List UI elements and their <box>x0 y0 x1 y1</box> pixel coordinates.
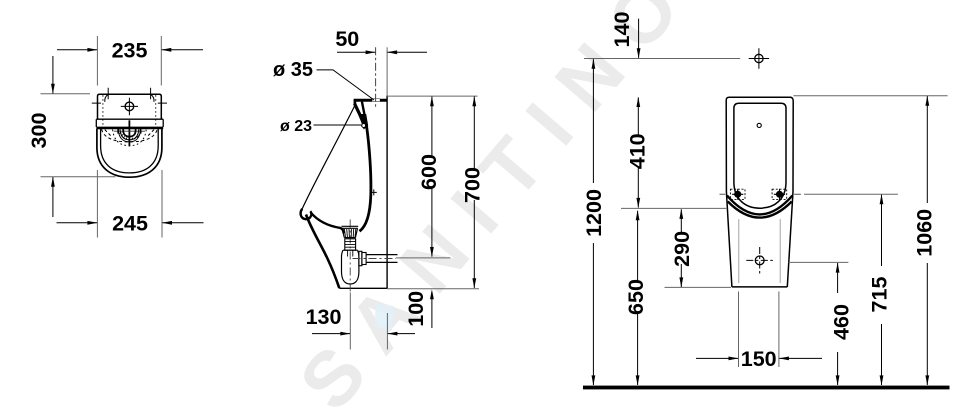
plate crosshair lines <box>121 98 138 115</box>
rim outer arc <box>727 196 792 215</box>
svg-text:245: 245 <box>112 212 148 236</box>
inlet spigot top thick bar <box>354 99 388 102</box>
dim 100 arrow and shaft <box>431 292 433 328</box>
hidden slot dashed line left <box>102 95 104 126</box>
trap dip tube <box>348 250 353 256</box>
dim 235 line right <box>162 49 203 51</box>
dim 150 extension lines <box>739 292 779 368</box>
trap flange <box>342 226 359 237</box>
hidden corner diagonal right <box>147 130 154 138</box>
dim 715 shaft <box>881 195 883 385</box>
trap flange hatch <box>344 229 355 237</box>
svg-text:460: 460 <box>829 304 853 340</box>
rim inner slope to drain <box>311 213 344 234</box>
top level extension line right <box>793 95 947 97</box>
corner relief hook left <box>105 95 108 102</box>
outlet crosshair <box>755 256 764 265</box>
bottom line <box>339 287 387 289</box>
leader ø23 <box>314 124 362 126</box>
rim band bottom thick line <box>96 127 163 130</box>
plate side centerline ticks <box>92 102 167 104</box>
dim 245 line right <box>162 222 203 224</box>
bowl outer edge (plan) <box>97 129 162 177</box>
svg-text:ø 23: ø 23 <box>280 118 312 135</box>
spigot left end <box>354 101 357 105</box>
small hole in back wall <box>757 123 761 127</box>
dim 1200 shaft <box>592 59 594 385</box>
dim 600 shaft <box>431 97 433 257</box>
wall line <box>386 96 388 289</box>
body outer edge left <box>726 97 793 287</box>
dim 300 line top <box>52 56 54 93</box>
svg-text:50: 50 <box>335 27 359 51</box>
dim 50 right extension <box>386 47 388 95</box>
svg-text:300: 300 <box>27 113 51 149</box>
drain recess hatch <box>120 132 141 140</box>
drain recess side ticks <box>118 129 140 134</box>
svg-text:715: 715 <box>868 277 892 313</box>
neck lower fill <box>360 114 368 130</box>
mounting plate outline (plan view) <box>98 94 162 119</box>
hole ø23 on slope <box>362 124 366 128</box>
mounting height line <box>584 58 740 60</box>
top mounting crosshair <box>755 54 763 62</box>
outer bottom shell <box>306 215 339 289</box>
fixing marker left <box>730 189 745 200</box>
trap locknut <box>345 239 356 250</box>
svg-text:290: 290 <box>670 231 694 267</box>
watermark blue accent <box>374 304 394 330</box>
front silhouette thin line <box>302 103 356 209</box>
rim level extension line <box>621 207 726 209</box>
svg-text:410: 410 <box>625 133 649 169</box>
top surface extension line <box>387 95 477 97</box>
lower body bottom <box>732 286 787 288</box>
bowl inner edge (plan) <box>101 129 159 173</box>
inlet hole centerline / dim 50 left extension <box>375 47 377 107</box>
inner bowl opening <box>734 103 786 208</box>
dim 130 line left <box>312 333 350 335</box>
rim band (plan view) <box>96 119 163 127</box>
pipe centerline extension <box>396 257 450 259</box>
svg-text:100: 100 <box>404 291 428 327</box>
inlet hole thin segments <box>372 99 380 102</box>
outlet pipe <box>366 255 397 263</box>
plate crosshair circle <box>125 102 134 111</box>
fixing height side ticks <box>720 193 801 195</box>
drain horizontal centerline <box>114 130 145 132</box>
svg-text:700: 700 <box>461 167 485 203</box>
drain semicircle <box>123 129 135 137</box>
svg-text:140: 140 <box>610 12 634 48</box>
dim 460 shaft <box>837 263 839 385</box>
hidden corner diagonal left <box>105 130 112 138</box>
bottom extension line right <box>387 288 479 290</box>
corner relief hook right <box>151 95 154 102</box>
dim 235 extension lines <box>97 36 161 86</box>
hidden channel lines <box>739 219 780 283</box>
fixing point cross <box>371 189 377 195</box>
pipe centerline dash-dot <box>353 258 397 260</box>
svg-text:130: 130 <box>306 305 342 329</box>
dim 150 line right <box>779 357 822 359</box>
outlet level extension line right <box>789 261 849 263</box>
outlet flange rings <box>359 251 362 265</box>
fixing level extension line right <box>804 193 898 195</box>
fixing marker right <box>772 189 787 200</box>
dim 650 shaft <box>637 211 639 385</box>
svg-text:150: 150 <box>741 347 777 371</box>
bottom level extension line <box>665 286 732 288</box>
floor line <box>583 386 950 390</box>
leader ø35 <box>317 70 375 100</box>
dim 130 extension lines <box>350 293 387 350</box>
svg-text:600: 600 <box>417 154 441 190</box>
dim 1060 shaft <box>926 96 928 385</box>
trap bottle <box>342 250 359 284</box>
dim 50 line right <box>388 51 428 53</box>
hidden slot dashed line right <box>155 95 157 126</box>
plate centerline ticks top <box>108 88 150 100</box>
svg-text:ø 35: ø 35 <box>273 59 313 81</box>
dim 245 extension lines <box>97 170 162 238</box>
svg-text:SANITINO: SANITINO <box>282 0 710 410</box>
hidden rim inner edge dashed arc <box>102 129 158 142</box>
dim 290 shaft <box>680 209 682 287</box>
svg-text:235: 235 <box>112 39 148 63</box>
dim 700 shaft <box>473 97 475 289</box>
dim 235 line left <box>57 49 97 51</box>
neck front thick slope <box>355 104 365 127</box>
trap centerline vertical <box>349 220 351 293</box>
drain outer dotted arc <box>113 130 147 146</box>
neck back edge <box>362 102 366 123</box>
svg-text:1060: 1060 <box>913 209 937 257</box>
dim 50 line left <box>337 51 375 53</box>
dim 410 shaft <box>637 97 639 207</box>
watermark SANITINO <box>282 0 710 410</box>
svg-text:1200: 1200 <box>582 189 606 237</box>
rim curl <box>301 209 312 219</box>
dim 140 shaft <box>638 19 640 58</box>
drain vertical centerline <box>128 120 130 146</box>
dim 245 line left <box>57 222 98 224</box>
rim lower arc <box>728 202 792 218</box>
dim 300 extension lines <box>41 94 116 177</box>
drain recess arcs <box>118 129 140 142</box>
dim 150 line left <box>696 357 738 359</box>
dim 300 line bottom <box>52 177 54 217</box>
inner back wall curve <box>360 122 371 232</box>
dim 130 line right <box>388 333 415 335</box>
svg-text:650: 650 <box>624 279 648 315</box>
